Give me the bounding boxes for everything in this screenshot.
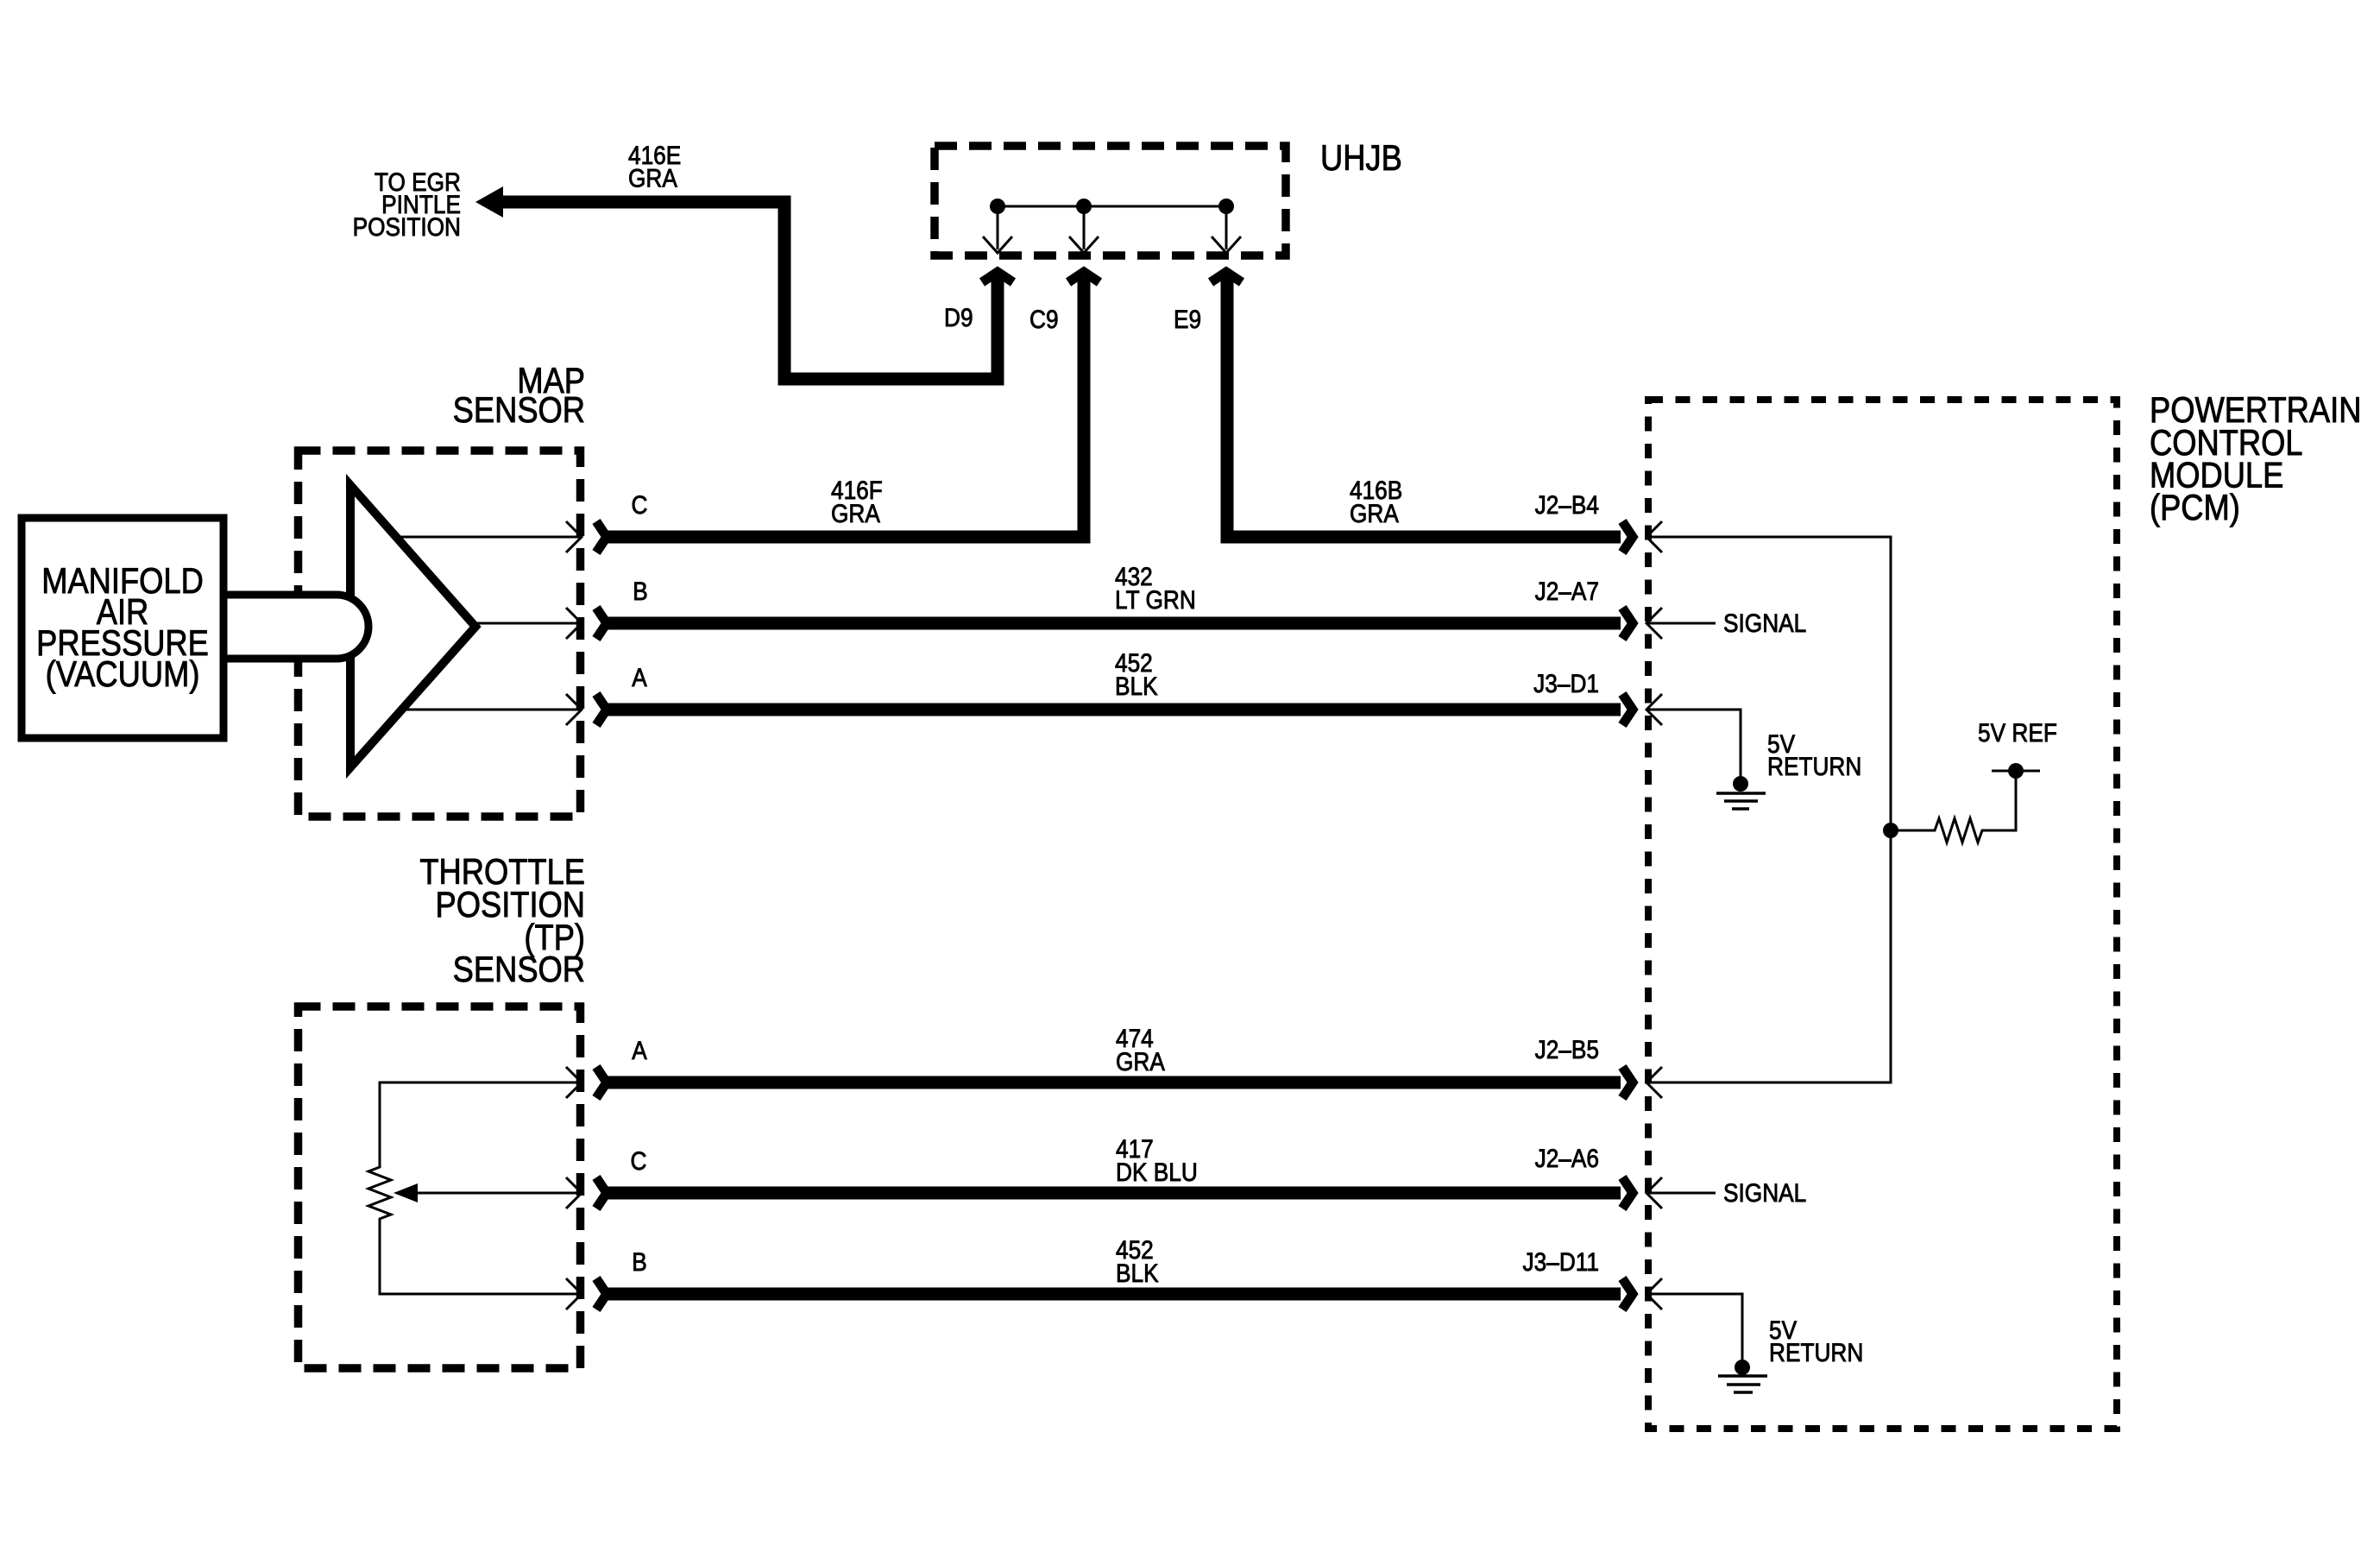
pin label J3-D1 [1533, 668, 1599, 697]
pin label A (TP) [632, 1035, 647, 1064]
svg-text:GRA: GRA [1350, 498, 1399, 527]
svg-text:J3–D11: J3–D11 [1523, 1246, 1599, 1276]
pin label E9 [1174, 304, 1201, 333]
svg-text:GRA: GRA [628, 163, 677, 192]
pin label A (MAP) [632, 662, 647, 691]
UHJB feed-through arrow to pin D9 [983, 206, 1012, 253]
svg-text:D9: D9 [944, 302, 973, 331]
wire 452 BLK: TP pin B to PCM J3-D11 (thick) [596, 1278, 1633, 1309]
svg-text:GRA: GRA [1116, 1046, 1165, 1076]
ground: 5V RETURN (lower) [1718, 1360, 1767, 1392]
throttle position TP sensor (dashed box) [299, 1007, 581, 1368]
label 5V RETURN (upper) [1767, 729, 1861, 780]
value label 416E GRA [628, 140, 681, 192]
node: 5V REF terminal dot [1992, 763, 2040, 779]
value label 432 LT GRN [1115, 561, 1196, 614]
PCM pin arrow J2-B5 [1646, 1067, 1662, 1098]
pin label B (MAP) [633, 576, 648, 605]
svg-text:SIGNAL: SIGNAL [1723, 1177, 1806, 1207]
PCM pin arrow J2-B4 [1646, 521, 1662, 552]
svg-text:A: A [632, 662, 647, 691]
svg-text:POSITION: POSITION [353, 211, 461, 241]
svg-text:C: C [631, 1145, 647, 1175]
value label 452 BLK (TP) [1116, 1234, 1159, 1287]
value label 417 DK BLU [1116, 1133, 1198, 1186]
wire: MAP sensor internal lead to pin B [475, 608, 582, 639]
MAP sensor (dashed box) [299, 451, 581, 817]
wire: MAP sensor internal lead to pin C [399, 521, 582, 552]
svg-text:A: A [632, 1035, 647, 1064]
MAP sensor transducer (triangle symbol) [350, 485, 475, 767]
TP sensor internal lead to pin C [566, 1177, 582, 1208]
value label 474 GRA [1116, 1023, 1165, 1076]
svg-text:C: C [632, 489, 648, 519]
wire: J3-D11 to internal ground [1646, 1294, 1742, 1363]
wire 432 LT GRN: MAP pin B to PCM J2-A7 (thick) [596, 608, 1633, 639]
vacuum port neck from manifold box [224, 595, 368, 659]
svg-text:J2–A7: J2–A7 [1535, 576, 1599, 605]
wire: PCM internal trace J2-B4 to J2-B5 (5V ref feed) [1646, 537, 1891, 1082]
UHJB feed-through arrow to pin C9 [1069, 206, 1099, 253]
wire 416B GRA: UHJB E9 to PCM J2-B4 (thick) [1227, 278, 1633, 552]
wire 452 BLK: MAP pin A to PCM J3-D1 (thick) [596, 694, 1633, 725]
svg-text:LT GRN: LT GRN [1115, 584, 1196, 614]
wire: J3-D1 to internal ground [1646, 710, 1741, 779]
svg-text:J2–B5: J2–B5 [1535, 1034, 1599, 1063]
connector chevron at UHJB pin E9 [1211, 272, 1242, 282]
label MAP SENSOR [453, 362, 585, 431]
pin label J2-B5 [1535, 1034, 1599, 1063]
svg-text:(VACUUM): (VACUUM) [46, 655, 200, 695]
svg-text:DK BLU: DK BLU [1116, 1157, 1198, 1186]
label POWERTRAIN CONTROL MODULE (PCM) [2150, 391, 2361, 528]
svg-text:J3–D1: J3–D1 [1533, 668, 1599, 697]
svg-text:BLK: BLK [1116, 1258, 1159, 1287]
potentiometer wiper arrow [394, 1183, 582, 1202]
pin label D9 [944, 302, 973, 331]
label MANIFOLD AIR PRESSURE (VACUUM) [36, 562, 209, 695]
ground: 5V RETURN (upper) [1716, 776, 1766, 809]
pin label J3-D11 [1523, 1246, 1599, 1276]
label 5V REF [1978, 717, 2057, 747]
pin label B (TP) [632, 1246, 647, 1276]
powertrain control module PCM (dashed box) [1648, 400, 2117, 1429]
TP sensor internal lead to pin A [566, 1067, 582, 1098]
svg-text:(PCM): (PCM) [2150, 489, 2240, 528]
pin label J2-B4 [1535, 489, 1599, 519]
svg-text:RETURN: RETURN [1767, 751, 1861, 780]
pin label J2-A6 [1535, 1143, 1599, 1172]
svg-text:UHJB: UHJB [1320, 139, 1402, 179]
svg-text:SIGNAL: SIGNAL [1723, 608, 1806, 637]
PCM pin arrow J2-A6 with SIGNAL tag [1646, 1177, 1806, 1208]
value label 416B GRA [1350, 475, 1402, 527]
pin label C (MAP) [632, 489, 648, 519]
value label 416F GRA [831, 475, 883, 527]
pin label C9 [1029, 304, 1059, 333]
label THROTTLE POSITION (TP) SENSOR [419, 853, 585, 990]
node label TO EGR PINTLE POSITION [353, 167, 461, 241]
potentiometer (TP sensor element) [368, 1082, 582, 1294]
connector chevron at UHJB pin C9 [1068, 272, 1099, 282]
svg-text:GRA: GRA [831, 498, 880, 527]
pin label J2-A7 [1535, 576, 1599, 605]
label UHJB [1320, 139, 1402, 179]
wire 474 GRA: TP pin A to PCM J2-B5 (thick) [596, 1067, 1633, 1098]
PCM pin arrow J3-D1 [1646, 694, 1662, 725]
value label 452 BLK [1115, 647, 1158, 700]
node: junction dot at resistor tap [1883, 823, 1898, 838]
PCM pin arrow J2-A7 with SIGNAL tag [1646, 608, 1806, 639]
TP sensor internal lead to pin B [566, 1278, 582, 1309]
junction block UHJB (dashed box) [935, 146, 1286, 256]
svg-text:C9: C9 [1029, 304, 1059, 333]
wire 416E GRA: UHJB D9 to EGR pintle position (thick, with arrowhead) [475, 186, 998, 379]
svg-text:BLK: BLK [1115, 671, 1158, 700]
PCM pin arrow J3-D11 [1646, 1278, 1662, 1309]
svg-text:E9: E9 [1174, 304, 1201, 333]
svg-text:RETURN: RETURN [1769, 1337, 1863, 1366]
resistor (PCM internal pull-up) [1891, 779, 2016, 842]
svg-text:5V REF: 5V REF [1978, 717, 2057, 747]
svg-text:B: B [633, 576, 648, 605]
manifold air pressure vacuum source (box) [22, 518, 224, 738]
wire: MAP sensor internal lead to pin A [400, 694, 582, 725]
pin label C (TP) [631, 1145, 647, 1175]
label 5V RETURN (lower) [1769, 1315, 1863, 1366]
node: UHJB internal bus bar with junction dots [990, 199, 1234, 214]
UHJB feed-through arrow to pin E9 [1212, 206, 1241, 253]
svg-text:J2–A6: J2–A6 [1535, 1143, 1599, 1172]
connector chevron at UHJB pin D9 [982, 272, 1013, 282]
wire 416F GRA: MAP pin C to UHJB C9 (thick) [596, 278, 1084, 552]
svg-text:SENSOR: SENSOR [453, 391, 585, 431]
wire 417 DK BLU: TP pin C to PCM J2-A6 (thick) [596, 1177, 1633, 1208]
svg-text:J2–B4: J2–B4 [1535, 489, 1599, 519]
svg-text:B: B [632, 1246, 647, 1276]
svg-text:SENSOR: SENSOR [453, 950, 585, 990]
